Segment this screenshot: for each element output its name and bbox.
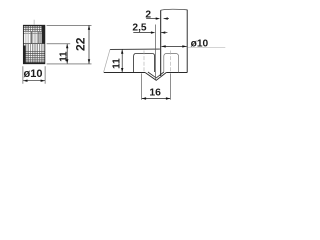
dimension 2 leader xyxy=(146,18,156,20)
svg-text:ø10: ø10 xyxy=(191,38,209,49)
dimension 11 pin extension line xyxy=(47,43,71,45)
pin shading left band xyxy=(23,46,25,64)
dimension 22 extension lines xyxy=(47,25,92,64)
dimension 11 pin line xyxy=(66,44,68,64)
dimension 11 plate line xyxy=(121,49,123,72)
mounting plate bottom edge right xyxy=(166,72,187,74)
left insert block xyxy=(134,53,155,72)
pin outline xyxy=(23,25,44,63)
dimension 2,5 arrows xyxy=(151,31,155,33)
dimension 11 pin arrows xyxy=(66,44,68,48)
knurl section stripes xyxy=(25,44,43,64)
mounting plate broken end xyxy=(104,49,110,72)
mounting plate bottom edge left xyxy=(104,72,145,74)
V groove outer xyxy=(145,73,166,81)
dimension 11 plate arrows xyxy=(121,49,123,53)
right insert block xyxy=(164,54,179,73)
dimension bore diameter line xyxy=(162,45,187,47)
svg-text:ø10: ø10 xyxy=(24,68,43,80)
slot wall A xyxy=(155,25,157,80)
dimension 2 arrows xyxy=(156,17,160,19)
dimension 16 line xyxy=(142,98,170,100)
dimension 22 arrows xyxy=(88,25,90,29)
dimension pin diameter extension lines xyxy=(23,66,45,84)
centerline right hole xyxy=(169,51,171,72)
mounting plate top edge xyxy=(110,48,160,50)
V groove inner xyxy=(148,72,164,78)
dimension pin diameter line xyxy=(23,80,45,82)
dimension bore diameter arrows xyxy=(161,45,165,47)
dimension 16 arrows xyxy=(142,97,146,99)
knurl head mesh horizontals xyxy=(23,27,44,33)
dimension 2,5 leader xyxy=(133,32,151,34)
dimension 16 extension lines xyxy=(142,73,171,99)
knurl section mesh horizontals xyxy=(23,52,44,62)
panel top edge xyxy=(161,9,188,10)
svg-text:16: 16 xyxy=(149,87,161,98)
svg-text:2: 2 xyxy=(145,10,151,21)
knurled pin body xyxy=(23,25,44,63)
svg-text:11: 11 xyxy=(59,51,70,62)
dimension bore diameter label underline xyxy=(188,46,226,48)
dimension 22 line xyxy=(88,25,90,63)
centerline left hole xyxy=(143,51,145,72)
pin centerline tick xyxy=(33,20,35,25)
svg-text:11: 11 xyxy=(112,58,123,69)
knurl section boundary line xyxy=(23,43,44,45)
shank stripes xyxy=(25,32,43,44)
pin shading right band xyxy=(42,25,45,43)
knurl head mesh verticals xyxy=(25,25,43,31)
panel right face xyxy=(186,10,188,73)
slot wall B plate left face xyxy=(160,10,162,76)
svg-text:22: 22 xyxy=(74,37,88,51)
dimension pin diameter arrows xyxy=(23,80,27,82)
svg-text:2,5: 2,5 xyxy=(132,22,146,33)
